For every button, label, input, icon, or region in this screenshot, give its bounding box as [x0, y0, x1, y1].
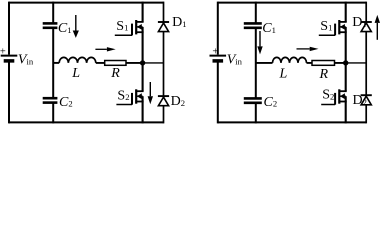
wire node-to-S2 (left) [142, 63, 144, 91]
node junction dot (right) [343, 60, 348, 65]
voltage source Vin (left) [1, 55, 18, 57]
svg-text:R: R [319, 67, 329, 82]
wire mid link (right) [346, 62, 367, 64]
diode D1 (right) [361, 22, 372, 32]
transistor S2 (right) [321, 89, 347, 104]
wire cap-to-inductor (right) [256, 62, 273, 64]
wire mid link (left) [143, 62, 164, 64]
wire switch branch top (right) [345, 2, 347, 22]
wire left rail lower (left) [8, 62, 10, 124]
wire left rail upper (right) [217, 2, 219, 55]
wire inductor-resistor-node (right) [307, 62, 346, 64]
wire top rail (right) [218, 2, 366, 4]
transistor S2 (left) [116, 89, 143, 104]
svg-text:L: L [71, 66, 80, 81]
transistor S1 (right) [319, 20, 347, 35]
inductor L (right) [273, 57, 307, 63]
svg-text:+: + [212, 46, 218, 57]
wire diode branch (right) [365, 2, 367, 124]
wire inductor-resistor-node (left) [96, 62, 143, 64]
current arrow at D1 (right) [375, 15, 380, 40]
wire S2-to-rail (right) [345, 102, 347, 124]
transistor S1 (left) [115, 20, 144, 35]
wire left rail lower (right) [217, 62, 219, 124]
wire switch branch top (left) [142, 2, 144, 22]
capacitor C2 (right) [244, 97, 262, 100]
svg-text:L: L [279, 66, 288, 81]
diode D1 (left) [158, 22, 169, 32]
capacitor C1 (left) [43, 22, 58, 25]
diode D2 (right) [361, 95, 372, 105]
wire diode branch (left) [163, 2, 165, 124]
wire left rail upper (left) [8, 2, 10, 55]
current arrow above R (left) [95, 47, 115, 51]
capacitor C1 (right) [244, 22, 262, 25]
wire cap branch bottom (left) [52, 103, 54, 123]
svg-text:+: + [0, 46, 6, 57]
svg-text:R: R [110, 66, 120, 81]
wire cap-to-inductor (left) [53, 62, 59, 64]
wire top rail (left) [9, 2, 164, 4]
resistor R (right) [312, 61, 335, 66]
wire S1-to-node (left) [142, 32, 144, 63]
current arrow at D2 (left) [148, 82, 153, 104]
diode D2 (left) [158, 96, 169, 106]
wire node-to-S2 (right) [345, 63, 347, 91]
current arrow above R (right) [297, 47, 319, 51]
current arrow below C1 (right) [257, 31, 262, 54]
wire cap branch middle (left) [52, 29, 54, 98]
inductor L (left) [59, 57, 96, 63]
wire cap branch top (right) [255, 2, 257, 24]
wire S1-to-node (right) [345, 32, 347, 63]
current arrow at C1 (left) [73, 15, 79, 38]
resistor R (left) [105, 61, 126, 66]
wire bottom rail (left) [9, 121, 164, 123]
wire cap branch top (left) [52, 2, 54, 24]
voltage source Vin (right) [210, 55, 227, 57]
node junction dot (left) [140, 60, 145, 65]
wire bottom rail (right) [218, 121, 366, 123]
wire S2-to-rail (left) [142, 102, 144, 124]
wire cap branch middle (right) [255, 29, 257, 98]
capacitor C2 (left) [43, 97, 58, 100]
wire cap branch bottom (right) [255, 103, 257, 123]
